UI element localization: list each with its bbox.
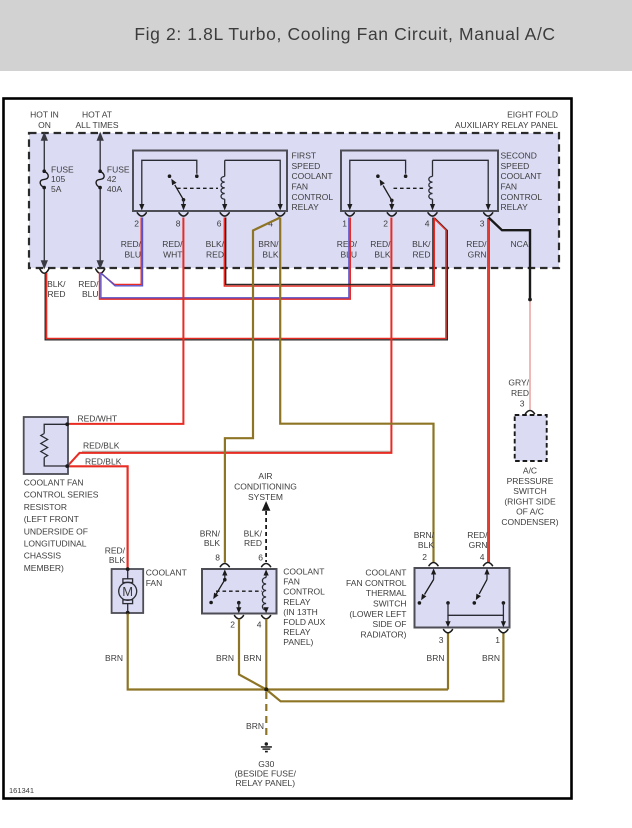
svg-text:(IN 13TH: (IN 13TH: [283, 607, 317, 617]
A/C pressure switch connector arch: [526, 411, 535, 414]
A/C pressure switch label text: [501, 466, 558, 528]
svg-text:BLK: BLK: [418, 540, 434, 550]
svg-text:5A: 5A: [51, 184, 62, 194]
svg-text:RELAY: RELAY: [501, 202, 529, 212]
resistor label text: [24, 478, 99, 573]
svg-text:BLU: BLU: [124, 249, 141, 259]
relay2 stationary contact dot: [404, 174, 408, 178]
svg-text:PRESSURE: PRESSURE: [507, 476, 554, 486]
svg-text:RELAY: RELAY: [283, 627, 311, 637]
svg-text:BRN: BRN: [105, 653, 123, 663]
svg-text:BRN/: BRN/: [200, 528, 221, 538]
labels below panel BLK/RED and RED/BLU: [47, 279, 99, 299]
relay1 free contact dot: [168, 174, 172, 178]
svg-text:6: 6: [217, 219, 222, 229]
wire BLK/RED relay1 pin6 to relay2 pin4: [224, 218, 434, 287]
svg-text:RELAY: RELAY: [283, 597, 311, 607]
svg-text:BRN: BRN: [216, 653, 234, 663]
labels BRN/BLK and RED/GRN above thermal switch: [414, 530, 488, 550]
svg-text:161341: 161341: [9, 786, 34, 795]
svg-text:SWITCH: SWITCH: [373, 599, 407, 609]
svg-text:UNDERSIDE OF: UNDERSIDE OF: [24, 526, 88, 536]
relay1 pin terminal arrows: [139, 204, 283, 211]
svg-text:RED/: RED/: [78, 279, 99, 289]
svg-text:2: 2: [383, 219, 388, 229]
relay2 coil link dashed: [394, 187, 427, 189]
svg-text:RELAY PANEL): RELAY PANEL): [236, 778, 296, 788]
svg-text:RED/: RED/: [121, 239, 142, 249]
labels BRN/BLK and BLK/RED above fan relay: [200, 528, 263, 548]
svg-text:4: 4: [480, 552, 485, 562]
svg-text:CONTROL: CONTROL: [292, 192, 334, 202]
wire BRN coolant fan to ground bus: [128, 614, 448, 690]
wire RED/BLU fuse42 to relay2 pin1: [100, 218, 351, 300]
svg-text:SYSTEM: SYSTEM: [248, 492, 283, 502]
fan relay switch arm: [209, 580, 225, 605]
svg-text:RESISTOR: RESISTOR: [24, 502, 67, 512]
switch S thermal switch box: [415, 568, 510, 628]
relay2 label SECOND SPEED COOLANT FAN CONTROL RELAY: [501, 151, 543, 213]
svg-text:COOLANT: COOLANT: [292, 171, 333, 181]
svg-text:RED/: RED/: [370, 239, 391, 249]
fan relay pin2 terminal: [236, 601, 241, 613]
svg-text:SWITCH: SWITCH: [513, 486, 547, 496]
panel name EIGHT FOLD AUXILIARY RELAY PANEL: [455, 110, 558, 130]
svg-text:RED: RED: [511, 388, 529, 398]
node HOT IN ON: [30, 110, 59, 130]
svg-text:WHT: WHT: [163, 249, 182, 259]
thermal switch bottom connector cups: [444, 630, 508, 633]
svg-text:2: 2: [134, 219, 139, 229]
svg-text:GRN: GRN: [469, 540, 488, 550]
svg-text:BLK/: BLK/: [47, 279, 66, 289]
svg-text:42: 42: [107, 174, 117, 184]
relay1 internal input bus pin2: [142, 160, 197, 205]
wire NCA from relay2 pin3: [489, 218, 530, 299]
ground G30 symbol: [261, 742, 272, 752]
svg-text:CONDENSER): CONDENSER): [501, 517, 558, 527]
svg-text:RED/BLK: RED/BLK: [83, 440, 120, 450]
thermal switch pin numbers: [422, 552, 500, 645]
svg-text:GRY/: GRY/: [508, 378, 529, 388]
relay1 wire color labels: [121, 239, 279, 259]
fuse F105 feed wire with arrows: [42, 134, 47, 268]
svg-text:4: 4: [425, 219, 430, 229]
svg-text:BLK/: BLK/: [244, 528, 263, 538]
svg-text:COOLANT: COOLANT: [501, 171, 542, 181]
relay1 coil: [221, 160, 280, 205]
relay1 pivot to pin8: [183, 200, 185, 205]
relay2 internal input bus pin1: [350, 160, 406, 205]
svg-text:LONGITUDINAL: LONGITUDINAL: [24, 539, 87, 549]
svg-text:AIR: AIR: [258, 471, 272, 481]
svg-text:FAN: FAN: [146, 578, 163, 588]
svg-text:105: 105: [51, 174, 65, 184]
svg-text:BLK: BLK: [109, 555, 125, 565]
relay1 stationary contact dot: [195, 174, 199, 178]
svg-text:SECOND: SECOND: [501, 151, 537, 161]
svg-text:RED/: RED/: [105, 546, 126, 556]
svg-text:HOT IN: HOT IN: [30, 110, 59, 120]
node HOT AT ALL TIMES: [76, 110, 119, 130]
svg-text:COOLANT FAN: COOLANT FAN: [24, 478, 84, 488]
svg-text:FIRST: FIRST: [292, 151, 317, 161]
svg-text:FAN: FAN: [292, 182, 309, 192]
svg-text:(LOWER LEFT: (LOWER LEFT: [349, 609, 406, 619]
fan relay coil: [262, 569, 268, 613]
label COOLANT FAN: [146, 568, 187, 588]
wire BRN fan relay pin4 to ground junction: [265, 619, 267, 690]
svg-text:RED: RED: [244, 538, 262, 548]
svg-text:40A: 40A: [107, 184, 122, 194]
wire BRN/BLK relay1 pin4 to thermal switch pin2: [280, 218, 433, 563]
svg-text:Fig 2: 1.8L Turbo, Cooling Fan: Fig 2: 1.8L Turbo, Cooling Fan Circuit, …: [134, 24, 555, 44]
thermal switch pin4 terminal and arm: [473, 568, 490, 604]
svg-text:COOLANT: COOLANT: [283, 567, 324, 577]
svg-text:RED/WHT: RED/WHT: [78, 414, 118, 424]
svg-text:BLK: BLK: [374, 249, 390, 259]
svg-text:RED: RED: [206, 249, 224, 259]
svg-text:HOT AT: HOT AT: [82, 110, 112, 120]
svg-text:BLU: BLU: [82, 289, 99, 299]
svg-text:BRN: BRN: [427, 653, 445, 663]
svg-text:M: M: [122, 584, 133, 599]
wire RED/GRN relay2 pin3 to thermal switch pin4: [488, 218, 489, 562]
wire BLK/RED fuse105 to relay2 pin4 (black+red pair): [45, 218, 447, 340]
svg-text:4: 4: [257, 619, 262, 629]
label GRY/RED and pin 3: [508, 378, 529, 409]
thermal switch top connector arches: [429, 563, 493, 566]
wire BRN dashed to ground G30: [265, 692, 267, 740]
svg-text:SPEED: SPEED: [501, 161, 530, 171]
thermal switch label text: [346, 568, 407, 640]
resistor element: [41, 424, 67, 466]
relay first speed coolant fan control relay box: [133, 151, 287, 212]
thermal switch pin2 terminal and arm: [418, 568, 437, 604]
svg-text:BRN: BRN: [244, 653, 262, 663]
relay1 label FIRST SPEED COOLANT FAN CONTROL RELAY: [292, 151, 334, 213]
svg-text:OF A/C: OF A/C: [516, 507, 544, 517]
svg-text:FOLD AUX: FOLD AUX: [283, 617, 325, 627]
svg-text:BRN: BRN: [482, 653, 500, 663]
svg-text:FAN CONTROL: FAN CONTROL: [346, 578, 407, 588]
resistor terminal dots: [65, 422, 69, 426]
svg-text:RED: RED: [413, 249, 431, 259]
wire RED/BLU fuse42 to relay1 pin2: [100, 218, 143, 286]
svg-text:BLK/: BLK/: [412, 239, 431, 249]
wire RED/BLK resistor to coolant fan: [68, 466, 128, 568]
svg-text:SPEED: SPEED: [292, 161, 321, 171]
fuse 42 40A symbol: [96, 165, 130, 194]
svg-text:3: 3: [520, 399, 525, 409]
label RED/BLK at fan: [105, 546, 126, 566]
diagram border frame: [4, 99, 572, 799]
wire BRN thermal switch pin3 to ground bus: [447, 634, 449, 690]
relay1 switch arm: [171, 179, 185, 202]
relay2 free contact dot: [376, 174, 380, 178]
ground label text G30: [235, 759, 297, 788]
relay2 pin numbers 1 2 4 3: [342, 219, 485, 229]
svg-text:NCA: NCA: [511, 239, 529, 249]
svg-text:GRN: GRN: [468, 249, 487, 259]
svg-text:3: 3: [480, 219, 485, 229]
wire BRN lower ground bus to thermal switch pin1: [266, 634, 503, 702]
fan relay bottom connector cups: [235, 616, 271, 619]
fan relay label text: [283, 567, 325, 648]
resistor R coolant fan control series resistor box: [24, 417, 68, 474]
svg-text:8: 8: [176, 219, 181, 229]
wire GRY/RED to A/C pressure switch: [529, 302, 531, 410]
fan relay top connector arches: [220, 564, 270, 567]
svg-text:(LEFT FRONT: (LEFT FRONT: [24, 514, 79, 524]
motor M1 coolant fan box: [112, 569, 144, 613]
svg-text:RED/: RED/: [466, 239, 487, 249]
relay2 connector brackets: [345, 213, 492, 216]
relay second speed coolant fan control relay box: [341, 151, 498, 212]
svg-text:CONDITIONING: CONDITIONING: [234, 482, 297, 492]
svg-text:RADIATOR): RADIATOR): [361, 629, 407, 639]
relay2 pin terminal arrows: [347, 204, 491, 211]
svg-text:RED: RED: [48, 289, 66, 299]
fan motor symbol: [119, 571, 137, 612]
svg-text:8: 8: [215, 553, 220, 563]
svg-text:AUXILIARY RELAY PANEL: AUXILIARY RELAY PANEL: [455, 120, 558, 130]
relay1 coil link dashed: [177, 187, 218, 189]
svg-text:COOLANT: COOLANT: [146, 568, 187, 578]
svg-text:COOLANT: COOLANT: [365, 568, 406, 578]
wire BRN fan relay pin2 to ground junction: [239, 619, 266, 690]
svg-text:1: 1: [495, 635, 500, 645]
svg-text:ALL TIMES: ALL TIMES: [76, 120, 119, 130]
fan relay pin8 terminal arrow: [222, 569, 227, 581]
svg-text:THERMAL: THERMAL: [366, 588, 407, 598]
fan relay coil link dashed: [216, 590, 262, 592]
svg-text:CONTROL SERIES: CONTROL SERIES: [24, 490, 99, 500]
svg-text:RED/: RED/: [337, 239, 358, 249]
svg-text:1: 1: [342, 219, 347, 229]
fuse F42 feed wire with arrows: [98, 134, 103, 268]
connector bracket under fuse 105: [40, 269, 49, 273]
title bar: [0, 0, 632, 71]
svg-text:BRN: BRN: [246, 721, 264, 731]
svg-text:MEMBER): MEMBER): [24, 563, 64, 573]
wire RED/WHT relay1 pin8 to resistor: [68, 218, 183, 424]
svg-text:FUSE: FUSE: [107, 165, 130, 175]
svg-text:CONTROL: CONTROL: [283, 587, 325, 597]
svg-text:CONTROL: CONTROL: [501, 192, 543, 202]
svg-text:G30: G30: [258, 759, 274, 769]
svg-text:BLK/: BLK/: [206, 239, 225, 249]
relay1 connector brackets: [137, 213, 284, 216]
svg-text:(BESIDE FUSE/: (BESIDE FUSE/: [235, 769, 297, 779]
svg-text:A/C: A/C: [523, 466, 537, 476]
svg-text:BLK: BLK: [262, 249, 278, 259]
NCA terminal dot: [528, 298, 532, 302]
svg-text:BLK: BLK: [204, 538, 220, 548]
wire BRN/BLK relay1 pin4 to fan control relay pin8: [225, 218, 280, 563]
fan relay pin numbers: [215, 553, 263, 630]
relay1 pin numbers 2 8 6 4: [134, 219, 273, 229]
A/C pressure switch dashed box: [515, 415, 547, 461]
svg-text:FUSE: FUSE: [51, 165, 74, 175]
svg-text:BRN/: BRN/: [414, 530, 435, 540]
svg-text:CHASSIS: CHASSIS: [24, 551, 62, 561]
thermal switch output contacts: [445, 601, 506, 627]
eight fold auxiliary relay panel (dashed box): [29, 133, 559, 268]
svg-text:RED/: RED/: [467, 530, 488, 540]
svg-text:RED/: RED/: [162, 239, 183, 249]
svg-text:FAN: FAN: [501, 182, 518, 192]
svg-text:FAN: FAN: [283, 577, 300, 587]
relay2 wire color labels: [337, 239, 529, 259]
fuse 105 5A symbol: [40, 165, 74, 194]
wire BLK/RED dashed to air conditioning system: [262, 501, 271, 562]
fan terminal dots: [126, 567, 130, 571]
svg-text:3: 3: [439, 635, 444, 645]
svg-text:(RIGHT SIDE: (RIGHT SIDE: [504, 496, 556, 506]
labels BRN bottom row: [105, 653, 500, 663]
label AIR CONDITIONING SYSTEM: [234, 471, 297, 502]
svg-text:BRN/: BRN/: [258, 239, 279, 249]
svg-text:2: 2: [422, 552, 427, 562]
svg-text:ON: ON: [38, 120, 51, 130]
svg-text:SIDE OF: SIDE OF: [372, 619, 406, 629]
svg-text:RED/BLK: RED/BLK: [85, 457, 122, 467]
wire RED/BLK resistor to relay2 pin2: [68, 218, 392, 467]
svg-text:6: 6: [258, 553, 263, 563]
relay2 coil: [429, 160, 488, 205]
ground junction dot: [264, 687, 268, 691]
svg-text:2: 2: [230, 619, 235, 629]
relay2 pivot to pin2: [391, 200, 393, 205]
relay2 switch arm: [380, 179, 394, 202]
svg-text:RELAY: RELAY: [292, 202, 320, 212]
relay K coolant fan control relay box: [202, 569, 277, 614]
svg-text:EIGHT FOLD: EIGHT FOLD: [507, 110, 558, 120]
connector bracket under fuse 42: [96, 269, 105, 273]
svg-text:PANEL): PANEL): [283, 637, 313, 647]
